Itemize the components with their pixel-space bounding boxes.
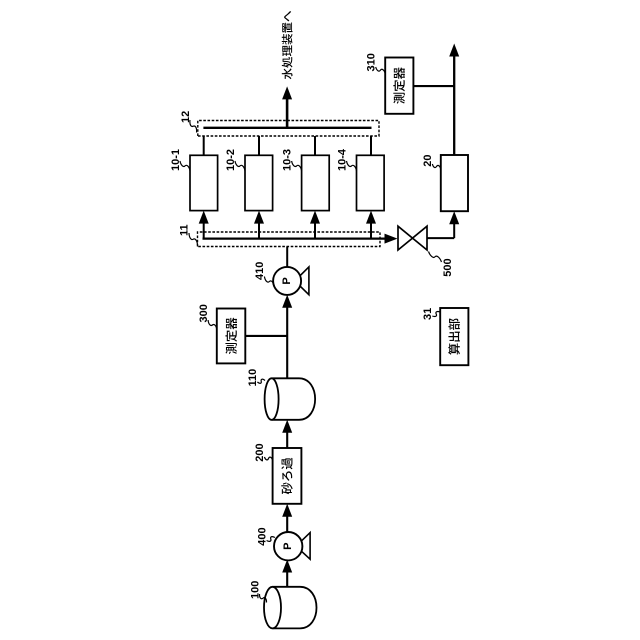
svg-text:10-2: 10-2 (225, 149, 237, 171)
svg-text:300: 300 (198, 304, 210, 322)
svg-text:10-1: 10-1 (170, 149, 182, 171)
svg-text:10-3: 10-3 (281, 149, 293, 171)
svg-text:10-4: 10-4 (336, 148, 348, 171)
svg-text:400: 400 (256, 527, 268, 545)
svg-text:P: P (281, 277, 293, 284)
svg-text:500: 500 (442, 258, 454, 276)
svg-text:31: 31 (422, 308, 434, 320)
svg-text:110: 110 (247, 369, 259, 387)
svg-text:P: P (282, 543, 294, 550)
svg-text:200: 200 (254, 443, 266, 461)
